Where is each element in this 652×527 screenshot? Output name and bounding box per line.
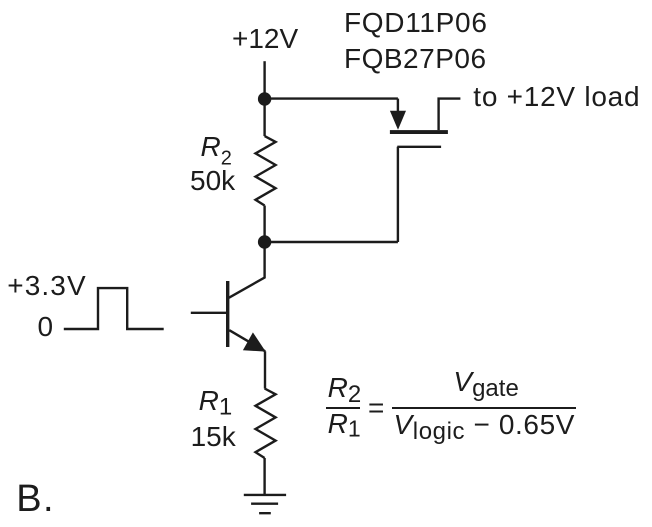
label resistor R2: [201, 133, 232, 173]
formula numerator R2: [328, 374, 362, 409]
wire node B to Q2 collector: [229, 242, 265, 298]
label +3.3V logic high: [7, 272, 86, 300]
formula left fraction bar: [326, 407, 360, 409]
label +12V supply: [232, 25, 298, 53]
resistor R2 zigzag: [256, 136, 276, 205]
label to +12V load: [473, 83, 640, 111]
wire MOSFET source lead: [397, 99, 399, 113]
wire Q2 base lead: [191, 312, 226, 314]
label 50k value: [190, 167, 235, 195]
transistor Q2 emitter: [229, 330, 265, 351]
MOSFET Q1 channel bar: [390, 130, 448, 134]
formula denominator V logic minus 0.65V: [394, 411, 576, 446]
formula equals sign: [368, 394, 384, 422]
wire emitter to R1: [264, 351, 266, 388]
wire node A to MOSFET source: [265, 97, 398, 99]
wire node B to gate: [265, 241, 398, 243]
formula denominator R1: [328, 410, 361, 442]
logic pulse waveform: [64, 288, 164, 329]
wire node A to R2: [263, 99, 265, 136]
label resistor R1: [199, 387, 233, 422]
resistor R1 zigzag: [256, 389, 276, 459]
label FQD11P06 part number: [344, 9, 488, 37]
label FQB27P06 part number: [344, 45, 487, 73]
wire MOSFET drain lead: [439, 99, 461, 131]
wire +12V supply lead: [263, 61, 265, 99]
label 15k value: [191, 423, 236, 451]
transistor Q2 base bar: [226, 281, 229, 347]
formula main fraction bar: [392, 407, 575, 409]
wire R2 to node B: [263, 206, 265, 243]
label B. figure sublabel: [16, 480, 55, 518]
wire R1 to ground: [263, 458, 265, 495]
MOSFET Q1 gate bar: [397, 146, 441, 148]
node A (top junction): [258, 92, 271, 105]
node B (gate junction): [258, 235, 271, 248]
ground: [244, 495, 286, 513]
MOSFET Q1 source arrow: [390, 111, 406, 130]
transistor Q2 emitter arrowhead: [243, 332, 266, 351]
formula numerator V gate: [453, 368, 518, 403]
label 0 logic low: [38, 313, 54, 341]
wire MOSFET gate vertical: [397, 147, 399, 242]
